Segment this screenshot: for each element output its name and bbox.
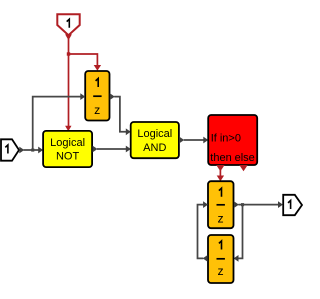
svg-text:AND: AND [143, 142, 166, 154]
arrowhead into If block input [203, 137, 208, 144]
wire NOT to Logical AND [97, 148, 126, 150]
red wire then to Unit Delay2 [219, 170, 221, 177]
red arrowhead into Unit Delay1 top [94, 65, 101, 71]
source arrow at AND output [179, 137, 184, 144]
arrowhead into AND lower input [126, 146, 131, 153]
unit delay U1 (1/z top-left) [85, 71, 109, 121]
red arrowhead into Logical NOT top [65, 126, 71, 132]
svg-text:then: then [210, 152, 231, 164]
logical NOT block [43, 131, 92, 167]
inport In2 (top, highlighted red) [57, 14, 79, 35]
red branch wire to Unit Delay1 [69, 54, 98, 67]
logical AND block [131, 122, 179, 158]
svg-text:z: z [218, 212, 224, 226]
unit delay U2 (1/z right top) [208, 181, 234, 228]
svg-text:else: else [235, 152, 255, 164]
red arrowhead into Unit Delay2 top [217, 176, 224, 182]
branch wire up to Unit Delay1 input [33, 97, 81, 150]
source arrow at Unit Delay3 output (left, flipped) [203, 255, 208, 262]
svg-text:If in>0: If in>0 [211, 133, 241, 145]
source arrow after In1 [19, 147, 24, 154]
loop wire Unit Delay3 to Unit Delay2 left input [198, 205, 204, 259]
arrowhead into Logical NOT left input [38, 147, 43, 154]
svg-text:z: z [218, 264, 224, 278]
red wire from In2 down to Logical NOT [68, 39, 70, 127]
then output port stub (red) [216, 165, 224, 171]
unit delay U3 (1/z right bottom, flipped) [208, 235, 234, 283]
else output port stub (red, unconnected) [239, 165, 247, 171]
svg-text:z: z [94, 103, 100, 117]
outport Out1 [283, 195, 302, 215]
source arrow at NOT output [93, 146, 98, 153]
source arrow at Unit Delay1 output [110, 93, 115, 100]
if block (If in>0 then else) [208, 115, 257, 165]
wire Unit Delay2 to Out1 [238, 204, 278, 206]
red junction dot [67, 52, 70, 55]
junction dot on output wire [241, 203, 244, 206]
arrowhead into Unit Delay1 left input [80, 93, 85, 100]
arrowhead into Out1 [278, 201, 283, 208]
inport In1 (left) [1, 139, 19, 160]
junction dot on In1 wire [31, 149, 34, 152]
feedback wire down to Unit Delay3 right input [238, 205, 242, 259]
svg-text:NOT: NOT [56, 150, 80, 162]
wire In1 to Logical NOT [24, 149, 40, 151]
arrowhead into AND upper input [126, 128, 131, 135]
source arrow at Unit Delay2 output [234, 201, 239, 208]
arrowhead into Unit Delay2 left input [203, 201, 208, 208]
svg-text:Logical: Logical [50, 137, 85, 149]
wire AND to If block [184, 139, 204, 141]
red source arrow under inport In2 [65, 34, 72, 40]
wire Unit Delay1 to AND upper input [114, 97, 126, 132]
arrowhead into Unit Delay3 right input [234, 255, 239, 262]
svg-text:Logical: Logical [137, 128, 172, 140]
